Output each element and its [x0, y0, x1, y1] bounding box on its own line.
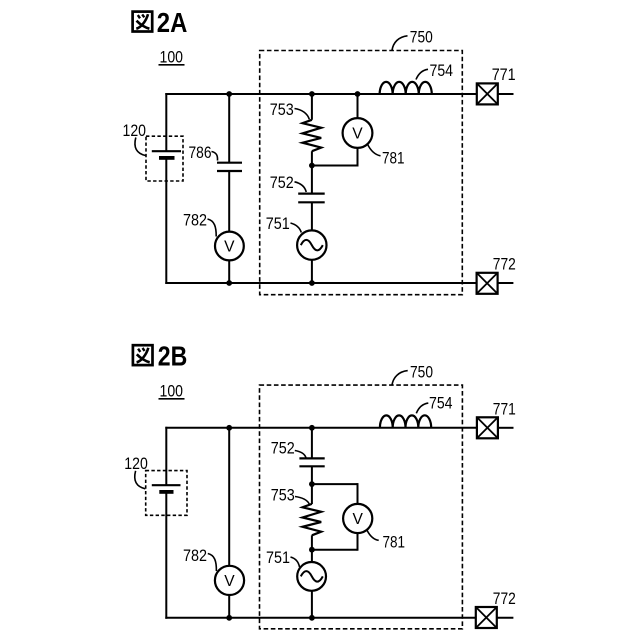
svg-text:781: 781	[383, 532, 406, 551]
inductor 754 (fig B)	[380, 415, 431, 427]
label 782 (fig A)	[183, 210, 216, 236]
wire: source 751 to bottom bus (fig A)	[311, 260, 313, 283]
svg-text:V: V	[224, 573, 235, 590]
label 100 (fig A)	[159, 48, 185, 67]
wire: voltmeter 781 bottom lead (fig B)	[357, 533, 359, 551]
inductor 754 (fig A)	[380, 82, 432, 94]
wire: resistor 753 to capacitor 752 (fig A)	[311, 151, 313, 193]
wire: capacitor 752 to resistor 753 (fig B)	[311, 466, 313, 504]
junction dot top bus x229 (fig A)	[226, 91, 232, 97]
svg-text:753: 753	[271, 485, 295, 504]
svg-text:2A: 2A	[157, 7, 188, 38]
svg-text:786: 786	[189, 143, 212, 162]
svg-text:120: 120	[124, 454, 148, 473]
terminal 772 (fig A)	[477, 273, 498, 294]
svg-text:V: V	[352, 126, 363, 143]
label 754 (fig B)	[416, 393, 452, 413]
label 120 (fig B)	[124, 454, 148, 489]
dashed enclosure of battery 120 (fig A)	[146, 136, 183, 181]
title 図2B	[133, 341, 187, 372]
dashed enclosure 750 (fig B)	[260, 385, 463, 629]
wire: stub right of terminal 772 (fig B)	[497, 617, 514, 619]
wire: left vertical above battery fig A	[165, 93, 167, 151]
wire: branch 752 top (fig B)	[311, 428, 313, 458]
wire: capacitor 752 to source 751 (fig A)	[311, 202, 313, 230]
svg-text:753: 753	[270, 100, 294, 119]
wire: left vertical below battery fig A	[165, 158, 167, 284]
svg-text:754: 754	[430, 61, 454, 80]
svg-text:752: 752	[270, 173, 294, 192]
battery 120 (fig B)	[152, 485, 181, 492]
label 786	[189, 143, 218, 162]
wire: top bus fig A	[165, 93, 477, 95]
junction dot x312 bottom bus (fig B)	[309, 615, 315, 621]
terminal 772 (fig B)	[476, 607, 497, 628]
wire: bottom bus fig B	[165, 617, 475, 619]
ac source 751 (fig B)	[297, 562, 326, 591]
svg-text:781: 781	[382, 148, 405, 167]
label 781 (fig B)	[367, 530, 405, 551]
title 図2A	[133, 7, 188, 38]
terminal 771 (fig A)	[477, 83, 498, 104]
voltmeter 782 (fig B)	[215, 566, 244, 595]
junction dot x357 top bus (fig A)	[355, 91, 361, 97]
junction dot x312 node row (fig A)	[309, 163, 315, 169]
wire: bottom bus fig A	[165, 282, 477, 284]
wire: voltmeter 781 top lead (fig B)	[357, 483, 359, 504]
wire: branch 786 to voltmeter 782 (fig A)	[228, 171, 230, 232]
wire: voltmeter 781 bottom lead (fig A)	[357, 148, 359, 167]
voltmeter 782 (fig A)	[215, 232, 244, 261]
label 750 (fig A)	[392, 27, 433, 50]
junction dot bottom bus x229 (fig B)	[226, 615, 232, 621]
wire: stub right of terminal 771 (fig A)	[498, 93, 514, 95]
svg-text:V: V	[353, 511, 364, 528]
svg-text:2B: 2B	[158, 341, 188, 372]
svg-text:771: 771	[492, 65, 516, 84]
wire: node row 753-781 horizontal (fig A)	[312, 165, 358, 167]
wire: source 751 to bottom bus (fig B)	[311, 591, 313, 618]
dashed enclosure 750 (fig A)	[260, 51, 463, 295]
wire: node row lower 753-781 horizontal (fig B)	[312, 549, 358, 551]
capacitor 786	[217, 163, 242, 171]
svg-text:751: 751	[266, 548, 290, 567]
label 782 (fig B)	[183, 546, 216, 571]
wire: voltmeter 781 top lead (fig A)	[357, 94, 359, 118]
label 100 (fig B)	[159, 382, 185, 401]
label 751 (fig A)	[266, 214, 302, 233]
svg-text:754: 754	[429, 393, 453, 412]
resistor 753 (fig B)	[303, 504, 322, 535]
svg-text:750: 750	[410, 362, 433, 381]
junction dot x312 top bus (fig A)	[309, 91, 315, 97]
wire: stub right of terminal 771 (fig B)	[498, 427, 514, 429]
wire: branch 782 upper (fig B)	[228, 428, 230, 566]
svg-text:100: 100	[160, 48, 184, 67]
wire: voltmeter 782 to bottom bus (fig A)	[228, 260, 230, 283]
label 751 (fig B)	[266, 548, 300, 567]
wire: branch 753 top (fig A)	[311, 94, 313, 120]
label 752 (fig A)	[270, 173, 306, 192]
svg-text:120: 120	[123, 121, 147, 140]
dashed enclosure of battery 120 (fig B)	[146, 471, 187, 516]
label 752 (fig B)	[271, 438, 306, 457]
junction dot x312 bottom bus (fig A)	[309, 280, 315, 286]
svg-text:771: 771	[493, 399, 516, 418]
label 753 (fig B)	[271, 485, 310, 504]
label 754 (fig A)	[416, 61, 453, 80]
label 753 (fig A)	[270, 100, 310, 120]
label 781 (fig A)	[367, 144, 404, 168]
capacitor 752 (fig A)	[298, 194, 325, 203]
ac source 751 (fig A)	[297, 230, 326, 259]
wire: branch 786 upper (fig A)	[228, 94, 230, 163]
wire: left vertical above battery fig B	[165, 427, 167, 485]
svg-text:772: 772	[493, 589, 516, 608]
wire: top bus fig B	[165, 427, 477, 429]
voltmeter 781 (fig B)	[343, 504, 372, 533]
junction dot top bus x229 (fig B)	[226, 425, 232, 431]
terminal 771 (fig B)	[477, 417, 498, 438]
svg-text:752: 752	[271, 438, 295, 457]
wire: left vertical below battery fig B	[165, 492, 167, 619]
junction dot bottom bus x229 (fig A)	[226, 280, 232, 286]
svg-text:782: 782	[183, 546, 207, 565]
junction dot x312 node row lower (fig B)	[309, 547, 315, 553]
battery 120 (fig A)	[152, 151, 181, 158]
label 120 (fig A)	[123, 121, 147, 156]
wire: voltmeter 782 to bottom bus (fig B)	[228, 595, 230, 618]
svg-text:750: 750	[410, 27, 433, 46]
svg-text:751: 751	[266, 214, 290, 233]
svg-text:100: 100	[160, 382, 184, 401]
wire: resistor 753 to source 751 (fig B)	[311, 535, 313, 562]
resistor 753 (fig A)	[303, 120, 322, 151]
junction dot x312 node row upper (fig B)	[309, 481, 315, 487]
svg-text:772: 772	[493, 254, 516, 273]
wire: stub right of terminal 772 (fig A)	[498, 282, 514, 284]
voltmeter 781 (fig A)	[343, 118, 373, 148]
junction dot x312 top bus (fig B)	[309, 425, 315, 431]
svg-text:V: V	[224, 239, 235, 256]
wire: node row upper 752-781 horizontal (fig B)	[312, 483, 358, 485]
capacitor 752 (fig B)	[299, 458, 324, 466]
label 750 (fig B)	[392, 362, 433, 385]
svg-text:782: 782	[183, 210, 207, 229]
